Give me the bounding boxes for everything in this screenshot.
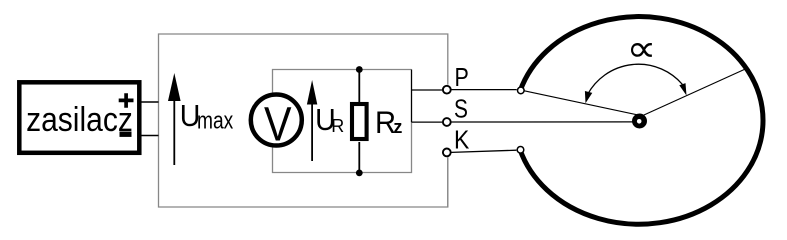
svg-text:V: V	[264, 98, 292, 152]
svg-text:K: K	[454, 126, 469, 154]
svg-text:S: S	[454, 94, 468, 122]
svg-text:∝: ∝	[627, 28, 657, 69]
svg-text:zasilacz: zasilacz	[26, 100, 133, 138]
svg-text:R: R	[331, 116, 344, 136]
svg-text:P: P	[455, 63, 469, 91]
svg-text:max: max	[197, 107, 233, 135]
svg-text:z: z	[393, 117, 402, 137]
